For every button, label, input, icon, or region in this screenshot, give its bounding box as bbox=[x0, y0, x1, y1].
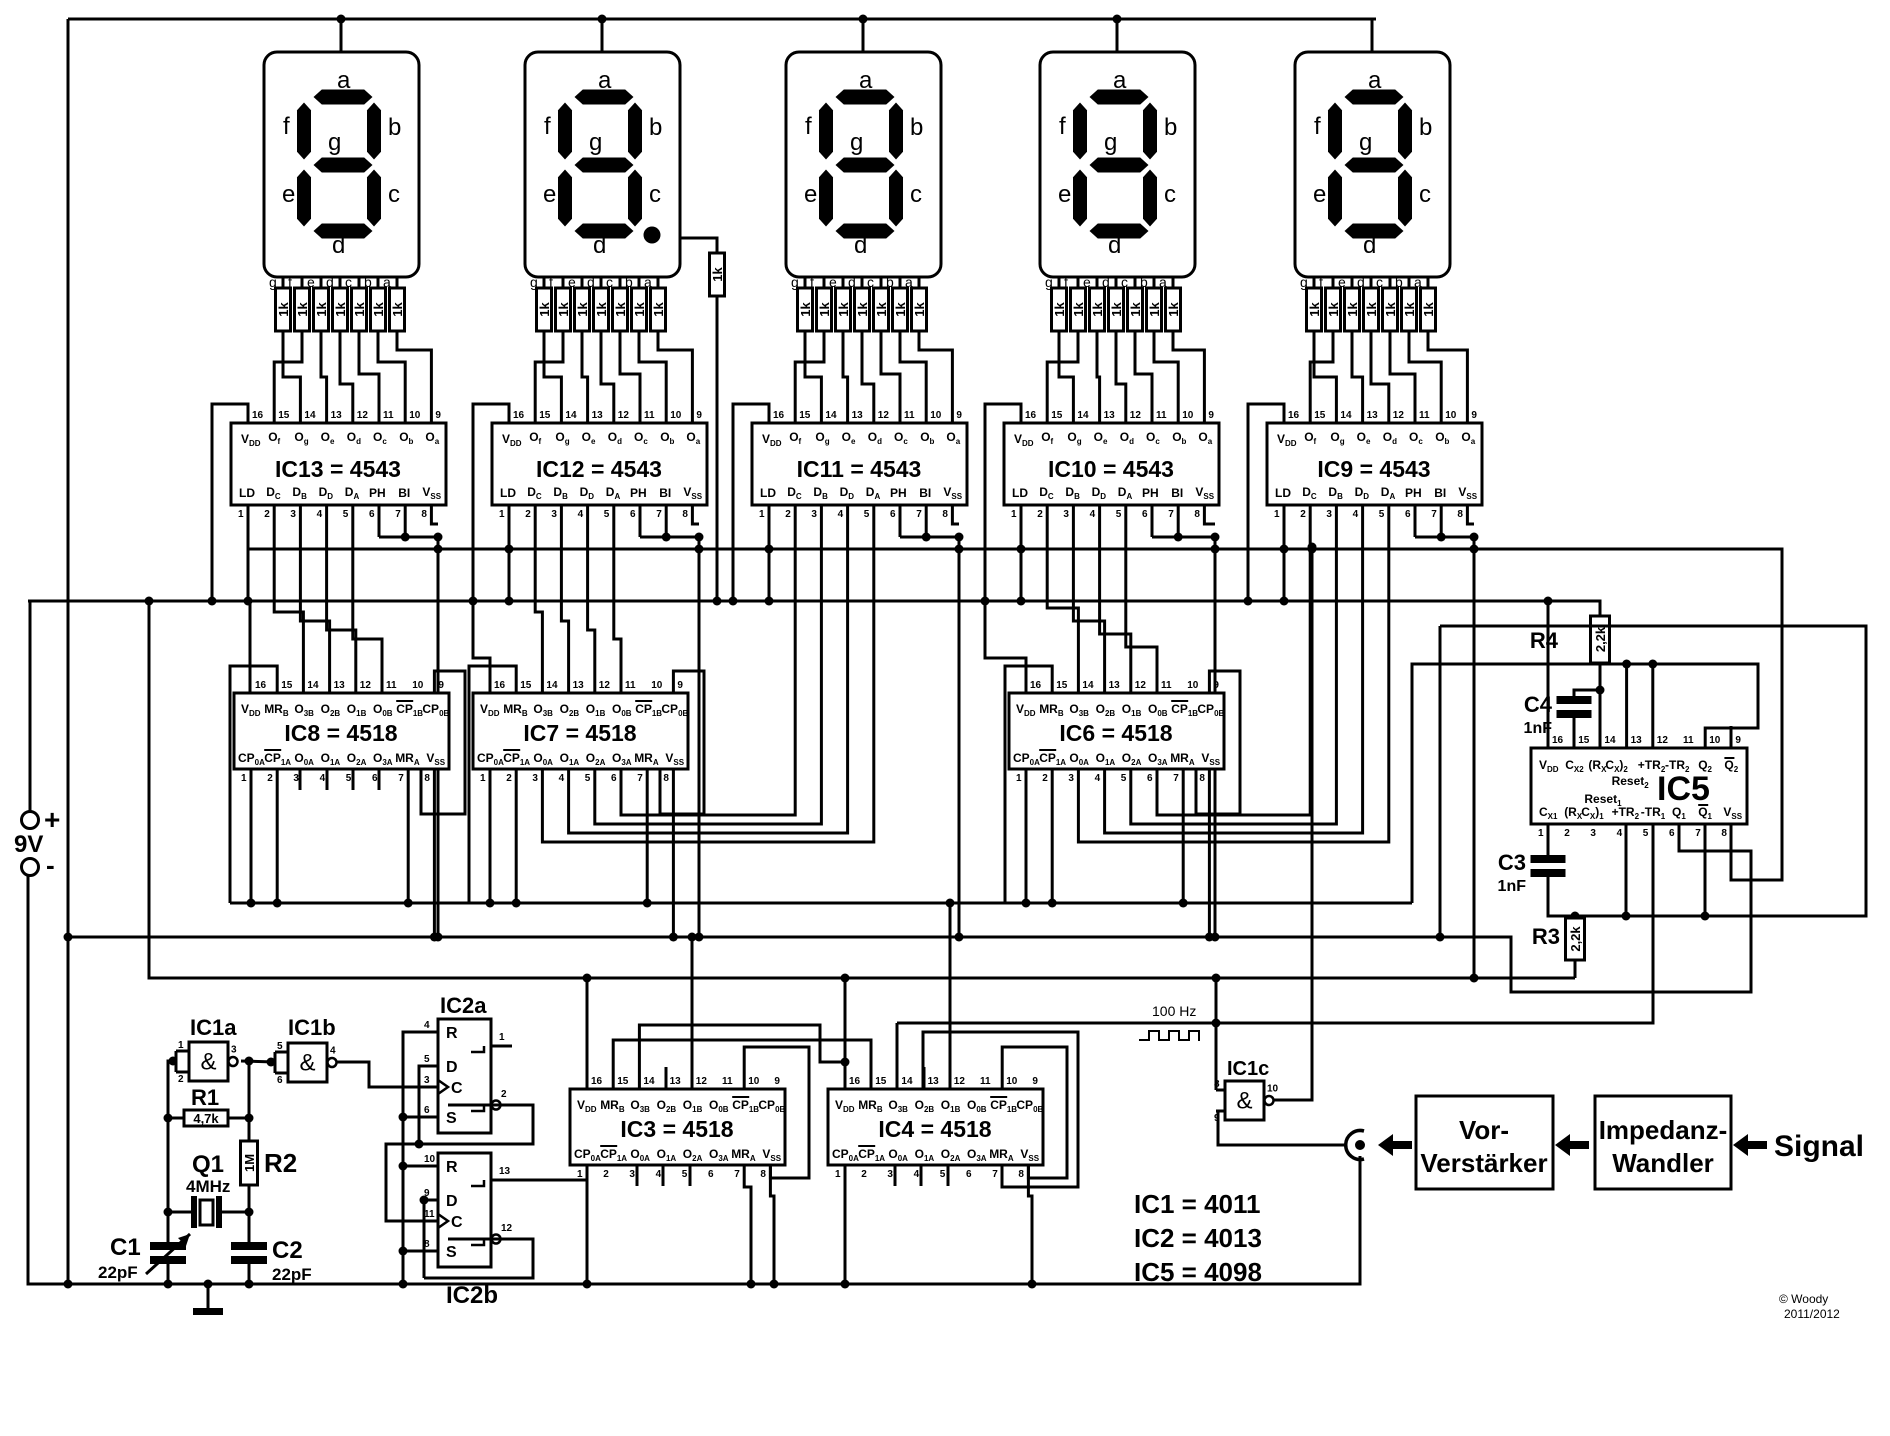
resistor 1k display 3 segment c bbox=[874, 288, 889, 331]
node display 3 bus junction bbox=[859, 15, 868, 24]
node pin12 junction bbox=[1648, 660, 1657, 669]
node IC6 MRA junction bbox=[1179, 899, 1188, 908]
decoder IC12 = 4543 bbox=[492, 423, 707, 505]
wire IC11 BI drop bbox=[925, 505, 928, 537]
counter IC8 = 4518 bbox=[234, 693, 449, 769]
svg-text:2: 2 bbox=[1564, 828, 1570, 839]
svg-text:5: 5 bbox=[940, 1169, 946, 1180]
svg-text:1: 1 bbox=[178, 1040, 184, 1051]
wire resistor f to IC11 bbox=[795, 331, 824, 423]
svg-text:15: 15 bbox=[278, 410, 290, 421]
wire IC8 stub bbox=[299, 769, 302, 790]
node 100Hz junction bbox=[1212, 1019, 1221, 1028]
node rail C IC1c junction bbox=[1212, 974, 1221, 983]
svg-text:e: e bbox=[282, 181, 295, 208]
svg-text:PH: PH bbox=[369, 486, 386, 500]
svg-text:1k: 1k bbox=[295, 302, 310, 317]
svg-text:1k: 1k bbox=[613, 302, 628, 317]
wire IC3 CP0A ground bbox=[586, 1165, 589, 1284]
wire R3 bottom to rail C bbox=[1574, 960, 1577, 978]
wire IC10 LD to bus bbox=[1020, 505, 1023, 601]
svg-text:c: c bbox=[1419, 181, 1431, 208]
wire resistor e to IC11 bbox=[843, 331, 848, 423]
wire resistor c to IC12 bbox=[620, 331, 640, 423]
resistor 1k display 4 segment c bbox=[1128, 288, 1143, 331]
node crystal right junction bbox=[245, 1208, 254, 1217]
wire display 3 pin d bbox=[861, 277, 864, 288]
svg-text:6: 6 bbox=[369, 509, 375, 520]
wire resistor f to IC10 bbox=[1047, 331, 1078, 423]
wire IC4 bottom stub bbox=[920, 1165, 923, 1186]
wire IC3 VDD riser bbox=[586, 978, 589, 1089]
svg-text:3: 3 bbox=[629, 1169, 635, 1180]
svg-text:22pF: 22pF bbox=[272, 1265, 312, 1284]
svg-text:10: 10 bbox=[1187, 680, 1199, 691]
svg-text:15: 15 bbox=[1314, 410, 1326, 421]
wire IC8 stub bbox=[326, 769, 329, 790]
svg-text:BI: BI bbox=[1434, 486, 1446, 500]
wire resistor e to IC13 bbox=[321, 331, 327, 423]
svg-text:Vor-: Vor- bbox=[1459, 1115, 1509, 1145]
svg-text:1k: 1k bbox=[912, 302, 927, 317]
node IC7 CP0A junction bbox=[486, 899, 495, 908]
wire IC11 LD to bus bbox=[768, 505, 771, 601]
svg-text:8: 8 bbox=[1721, 828, 1727, 839]
wire resistor d to IC11 bbox=[862, 331, 874, 423]
svg-text:c: c bbox=[1164, 181, 1176, 208]
wire display 1 pin e bbox=[320, 277, 323, 288]
svg-text:11: 11 bbox=[1156, 410, 1167, 421]
svg-text:12: 12 bbox=[360, 680, 372, 691]
wire IC3 bottom stub bbox=[662, 1165, 665, 1186]
svg-text:5: 5 bbox=[1643, 828, 1649, 839]
svg-text:12: 12 bbox=[878, 410, 890, 421]
svg-text:13: 13 bbox=[928, 1076, 940, 1087]
node IC11 rail549 junction bbox=[955, 545, 964, 554]
wire IC8 stub bbox=[378, 769, 381, 790]
wire 100Hz line to IC5 -TR1 bbox=[897, 824, 1653, 1023]
svg-text:3: 3 bbox=[424, 1075, 430, 1086]
wire resistor a to IC13 bbox=[397, 331, 431, 423]
wire IC12 VSS drop bbox=[692, 505, 699, 524]
resistor 1k display 1 segment a bbox=[390, 288, 405, 331]
svg-text:13: 13 bbox=[334, 680, 346, 691]
node crystal left junction bbox=[164, 1208, 173, 1217]
svg-text:5: 5 bbox=[682, 1169, 688, 1180]
wire IC11 D2 to IC7 A outputs bbox=[569, 505, 848, 833]
svg-text:-: - bbox=[46, 850, 55, 880]
svg-text:4: 4 bbox=[330, 1046, 336, 1057]
wire IC8 VDD riser bbox=[249, 601, 252, 693]
svg-text:4: 4 bbox=[1617, 828, 1623, 839]
svg-text:8: 8 bbox=[424, 773, 430, 784]
svg-text:5: 5 bbox=[346, 773, 352, 784]
node IC12 tie junction bbox=[662, 533, 671, 542]
resistor 1k display 1 segment f bbox=[295, 288, 310, 331]
svg-text:7: 7 bbox=[656, 509, 662, 520]
wire IC12 LD to bus bbox=[508, 505, 511, 601]
wire IC5 VDD riser bbox=[1547, 601, 1550, 748]
svg-text:1k: 1k bbox=[1166, 302, 1181, 317]
svg-text:12: 12 bbox=[696, 1076, 708, 1087]
svg-text:6: 6 bbox=[966, 1169, 972, 1180]
wire display 3 pin c bbox=[880, 277, 883, 288]
wire display 3 anode stub bbox=[862, 19, 865, 52]
wire IC8 CP0B loop bbox=[421, 671, 465, 814]
svg-text:7: 7 bbox=[637, 773, 643, 784]
svg-text:f: f bbox=[1319, 274, 1323, 290]
svg-text:1: 1 bbox=[1538, 828, 1544, 839]
wire IC13 PH BI tie bbox=[379, 536, 438, 539]
svg-text:8: 8 bbox=[760, 1169, 766, 1180]
wire IC4 bottom stub bbox=[947, 1165, 950, 1186]
wire IC9 D3 to IC6 A outputs bbox=[1078, 505, 1388, 842]
svg-text:C: C bbox=[451, 1080, 463, 1097]
svg-text:9: 9 bbox=[696, 410, 702, 421]
wire IC2b S bbox=[403, 1250, 438, 1253]
node IC6 CP0A junction bbox=[1022, 899, 1031, 908]
svg-text:IC2 = 4013: IC2 = 4013 bbox=[1134, 1223, 1262, 1253]
ground symbol bbox=[207, 1284, 210, 1308]
resistor 1k display 5 segment f bbox=[1326, 288, 1341, 331]
counter IC3 = 4518 bbox=[570, 1089, 785, 1165]
block Vor-Verstaerker bbox=[1416, 1096, 1553, 1189]
wire IC6 VSS drop bbox=[1208, 769, 1211, 937]
wire IC11 VDD riser bbox=[733, 404, 769, 601]
wire resistor b to IC10 bbox=[1154, 331, 1178, 423]
svg-text:1M: 1M bbox=[242, 1154, 257, 1172]
wire rail C (VDD lower) bbox=[149, 601, 1575, 978]
svg-text:11: 11 bbox=[1683, 735, 1694, 746]
svg-text:16: 16 bbox=[849, 1076, 861, 1087]
resistor 1k display 1 segment e bbox=[314, 288, 329, 331]
svg-text:8: 8 bbox=[1214, 1079, 1220, 1090]
svg-text:g: g bbox=[1104, 129, 1117, 156]
svg-text:a: a bbox=[337, 67, 351, 94]
svg-text:7: 7 bbox=[1173, 773, 1179, 784]
wire IC8 CP1A drop bbox=[276, 769, 279, 903]
svg-text:Impedanz-: Impedanz- bbox=[1599, 1115, 1728, 1145]
svg-text:3: 3 bbox=[532, 773, 538, 784]
wire IC9 D1 to IC6 A outputs bbox=[1131, 505, 1337, 824]
node IC8 CP1A junction bbox=[273, 899, 282, 908]
wire IC9 VSS drop bbox=[1467, 505, 1474, 524]
wire resistor b to IC13 bbox=[378, 331, 405, 423]
wire IC4 bottom stub bbox=[894, 1165, 897, 1186]
svg-text:4: 4 bbox=[838, 509, 844, 520]
svg-text:D: D bbox=[446, 1059, 458, 1076]
svg-text:10: 10 bbox=[1445, 410, 1457, 421]
resistor 1k display 2 segment g bbox=[537, 288, 552, 331]
svg-text:1k: 1k bbox=[1307, 302, 1322, 317]
decoder IC10 = 4543 bbox=[1004, 423, 1219, 505]
svg-text:d: d bbox=[593, 232, 606, 259]
svg-text:IC1b: IC1b bbox=[288, 1015, 336, 1040]
wire C3 bottom to reset node bbox=[1548, 877, 1626, 916]
svg-text:6: 6 bbox=[630, 509, 636, 520]
svg-text:8: 8 bbox=[1457, 509, 1463, 520]
svg-text:11: 11 bbox=[424, 1209, 435, 1220]
arrow preamp to jack bbox=[1378, 1134, 1412, 1156]
counter IC6 = 4518 bbox=[1009, 693, 1224, 769]
svg-text:13: 13 bbox=[499, 1166, 511, 1177]
wire C1 arrow bbox=[146, 1234, 190, 1274]
wire display 2 pin b bbox=[638, 277, 641, 288]
svg-text:16: 16 bbox=[1030, 680, 1042, 691]
svg-text:3: 3 bbox=[551, 509, 557, 520]
wire IC13 D0 to IC8 bbox=[274, 505, 303, 693]
svg-text:BI: BI bbox=[919, 486, 931, 500]
svg-text:IC6 = 4518: IC6 = 4518 bbox=[1059, 720, 1172, 746]
svg-text:IC8 = 4518: IC8 = 4518 bbox=[284, 720, 397, 746]
svg-text:6: 6 bbox=[890, 509, 896, 520]
svg-text:BI: BI bbox=[659, 486, 671, 500]
svg-text:5: 5 bbox=[277, 1041, 283, 1052]
node IC11 VDD junction bbox=[729, 597, 738, 606]
node rail549 junction bbox=[765, 545, 774, 554]
svg-text:14: 14 bbox=[304, 410, 316, 421]
svg-text:d: d bbox=[854, 232, 867, 259]
monostable IC5 = 4098 bbox=[1531, 748, 1747, 824]
node IC2 rail ground junction bbox=[399, 1280, 408, 1289]
wire IC10 D0 to IC6 bbox=[1047, 505, 1078, 693]
svg-text:13: 13 bbox=[1367, 410, 1379, 421]
svg-text:Verstärker: Verstärker bbox=[1420, 1148, 1547, 1178]
node IC3 VDD junction bbox=[583, 974, 592, 983]
node R4 C4 junction bbox=[1596, 686, 1605, 695]
wire IC9 VSS to rail B bbox=[1473, 537, 1476, 978]
svg-text:a: a bbox=[1368, 67, 1382, 94]
svg-text:9: 9 bbox=[1208, 410, 1214, 421]
svg-text:7: 7 bbox=[734, 1169, 740, 1180]
wire IC6 MRA drop bbox=[1182, 769, 1185, 903]
wire display 1 pin g bbox=[282, 277, 285, 288]
svg-text:b: b bbox=[1164, 114, 1177, 141]
svg-text:9: 9 bbox=[956, 410, 962, 421]
wire IC2b Qbar feedback bbox=[424, 1239, 533, 1278]
svg-text:9: 9 bbox=[435, 410, 441, 421]
node IC10 tie end junction bbox=[1211, 533, 1220, 542]
node IC1a output junction bbox=[245, 1057, 254, 1066]
resistor 1k display 1 segment g bbox=[276, 288, 291, 331]
svg-text:4: 4 bbox=[317, 509, 323, 520]
svg-text:4: 4 bbox=[578, 509, 584, 520]
svg-text:9: 9 bbox=[1213, 680, 1219, 691]
svg-text:© Woody: © Woody bbox=[1779, 1292, 1828, 1306]
svg-text:14: 14 bbox=[1340, 410, 1352, 421]
svg-text:b: b bbox=[1419, 114, 1432, 141]
svg-text:1k: 1k bbox=[352, 302, 367, 317]
resistor 1k display 4 segment b bbox=[1147, 288, 1162, 331]
node IC6 CP1A junction bbox=[1048, 899, 1057, 908]
wire IC12 D3 to IC7 bbox=[614, 505, 621, 693]
svg-text:13: 13 bbox=[670, 1076, 682, 1087]
wire DP resistor to VDD bus bbox=[716, 296, 719, 601]
node IC11 VSS rail junction bbox=[955, 933, 964, 942]
node C2 ground junction bbox=[245, 1280, 254, 1289]
wire IC3 top stub bbox=[665, 1067, 668, 1089]
wire display 1 anode stub bbox=[340, 19, 343, 52]
svg-text:&: & bbox=[299, 1050, 315, 1077]
svg-text:15: 15 bbox=[539, 410, 551, 421]
node VDD bus to IC5 VDD bbox=[1544, 597, 1553, 606]
node rail549 junction bbox=[1017, 545, 1026, 554]
svg-text:8: 8 bbox=[1199, 773, 1205, 784]
node IC9 tie junction bbox=[1437, 533, 1446, 542]
svg-text:15: 15 bbox=[1056, 680, 1068, 691]
wire IC11 D0 to IC7 A outputs bbox=[621, 505, 795, 815]
resistor 1k display 5 segment d bbox=[1364, 288, 1379, 331]
wire display 5 pin a bbox=[1427, 277, 1430, 288]
svg-text:IC2b: IC2b bbox=[446, 1282, 498, 1309]
flip-flop IC2a bbox=[438, 1019, 491, 1133]
svg-text:6: 6 bbox=[1142, 509, 1148, 520]
svg-text:7: 7 bbox=[1168, 509, 1174, 520]
wire IC2b R bbox=[403, 1165, 438, 1168]
svg-text:10: 10 bbox=[424, 1154, 436, 1165]
wire IC7 CP1A drop bbox=[515, 769, 518, 903]
wire left feedback drop bbox=[1439, 626, 1442, 937]
wire IC13 VDD riser bbox=[212, 404, 248, 601]
7-segment display LD5 bbox=[1295, 52, 1450, 277]
svg-text:12: 12 bbox=[1657, 735, 1669, 746]
svg-text:1: 1 bbox=[577, 1169, 583, 1180]
svg-text:11: 11 bbox=[386, 680, 397, 691]
7-segment display LD1 bbox=[264, 52, 419, 277]
wire IC9 VDD riser bbox=[1248, 404, 1284, 601]
svg-text:13: 13 bbox=[1109, 680, 1121, 691]
svg-text:IC5: IC5 bbox=[1657, 770, 1710, 808]
node R1 right junction bbox=[245, 1114, 254, 1123]
node pin4 reset junction bbox=[1622, 912, 1631, 921]
wire IC2b clock bbox=[386, 1144, 438, 1221]
svg-text:16: 16 bbox=[1288, 410, 1300, 421]
svg-text:1: 1 bbox=[1011, 509, 1017, 520]
svg-text:15: 15 bbox=[1051, 410, 1063, 421]
svg-text:14: 14 bbox=[565, 410, 577, 421]
wire IC3 CP loop bbox=[744, 1047, 809, 1178]
wire IC2a Q stub bbox=[491, 1045, 512, 1048]
wire resistor d to IC10 bbox=[1116, 331, 1126, 423]
wire display 2 pin c bbox=[619, 277, 622, 288]
node IC4 VDD junction bbox=[841, 974, 850, 983]
resistor 1k display 3 segment a bbox=[912, 288, 927, 331]
svg-text:g: g bbox=[328, 129, 341, 156]
wire IC7 VSS drop bbox=[672, 769, 675, 937]
wire IC13 BI drop bbox=[404, 505, 407, 537]
svg-text:C1: C1 bbox=[110, 1234, 141, 1261]
wire IC13 LD to bus bbox=[247, 505, 250, 601]
svg-text:1k: 1k bbox=[1364, 302, 1379, 317]
wire IC10 VDD riser bbox=[985, 404, 1021, 601]
svg-text:d: d bbox=[1363, 232, 1376, 259]
svg-text:LD: LD bbox=[760, 486, 776, 500]
node IC10 tie junction bbox=[1174, 533, 1183, 542]
resistor 1k display 4 segment f bbox=[1071, 288, 1086, 331]
svg-text:PH: PH bbox=[1405, 486, 1422, 500]
node IC9 VDD junction bbox=[1244, 597, 1253, 606]
svg-text:1k: 1k bbox=[632, 302, 647, 317]
svg-text:7: 7 bbox=[1695, 828, 1701, 839]
svg-text:d: d bbox=[332, 232, 345, 259]
node R3 top junction bbox=[1571, 912, 1580, 921]
svg-text:12: 12 bbox=[501, 1223, 513, 1234]
svg-text:10: 10 bbox=[651, 680, 663, 691]
node IC2b R junction bbox=[399, 1162, 408, 1171]
svg-text:6: 6 bbox=[424, 1105, 430, 1116]
wire IC3 bottom stub bbox=[636, 1165, 639, 1186]
svg-text:9: 9 bbox=[677, 680, 683, 691]
svg-text:3: 3 bbox=[811, 509, 817, 520]
svg-text:10: 10 bbox=[409, 410, 421, 421]
wire right osc rail bbox=[248, 1061, 251, 1141]
crystal Q1 4MHz bbox=[191, 1196, 197, 1228]
wire display 1 pin a bbox=[396, 277, 399, 288]
svg-text:4,7k: 4,7k bbox=[193, 1111, 219, 1126]
node IC12 VDD junction bbox=[469, 597, 478, 606]
resistor 1k display 2 segment d bbox=[594, 288, 609, 331]
svg-text:4: 4 bbox=[656, 1169, 662, 1180]
wire ground bus bbox=[28, 875, 1360, 1284]
wire rail B below counters bbox=[68, 824, 1751, 992]
wire IC3 VSS drop bbox=[770, 1165, 774, 1284]
svg-text:D: D bbox=[446, 1193, 458, 1210]
svg-text:IC9 = 4543: IC9 = 4543 bbox=[1317, 456, 1430, 482]
svg-text:2: 2 bbox=[267, 773, 273, 784]
resistor 1k display 1 segment b bbox=[371, 288, 386, 331]
wire IC3 to IC4 link bbox=[613, 1040, 871, 1089]
wire rail PH BI bbox=[248, 505, 1782, 880]
wire resistor e to IC10 bbox=[1097, 331, 1100, 423]
wire display 4 pin a bbox=[1172, 277, 1175, 288]
svg-text:Reset2: Reset2 bbox=[1612, 774, 1650, 790]
wire display 1 pin f bbox=[301, 277, 304, 288]
wire display 5 pin e bbox=[1351, 277, 1354, 288]
svg-text:C3: C3 bbox=[1498, 850, 1526, 875]
node IC10 rail549 junction bbox=[1211, 545, 1220, 554]
resistor R2 1M bbox=[241, 1141, 258, 1185]
wire IC12 VSS to rail B bbox=[698, 537, 701, 937]
svg-text:S: S bbox=[446, 1244, 457, 1261]
svg-text:16: 16 bbox=[773, 410, 785, 421]
wire IC6 CP0B loop bbox=[1196, 671, 1240, 814]
svg-text:16: 16 bbox=[494, 680, 506, 691]
svg-text:g: g bbox=[589, 129, 602, 156]
node C1 ground junction bbox=[164, 1280, 173, 1289]
svg-text:1k: 1k bbox=[1071, 302, 1086, 317]
svg-text:3: 3 bbox=[1068, 773, 1074, 784]
svg-text:f: f bbox=[283, 113, 290, 140]
svg-text:R: R bbox=[446, 1159, 458, 1176]
svg-text:11: 11 bbox=[644, 410, 655, 421]
svg-text:10: 10 bbox=[930, 410, 942, 421]
wire IC9 PH drop bbox=[1414, 505, 1417, 537]
svg-text:1: 1 bbox=[759, 509, 765, 520]
svg-text:1k: 1k bbox=[314, 302, 329, 317]
svg-text:e: e bbox=[1058, 181, 1071, 208]
svg-text:14: 14 bbox=[901, 1076, 913, 1087]
svg-text:2: 2 bbox=[506, 773, 512, 784]
svg-text:e: e bbox=[804, 181, 817, 208]
wire IC3 chain loop bbox=[639, 1025, 845, 1089]
svg-text:1k: 1k bbox=[371, 302, 386, 317]
svg-text:2: 2 bbox=[861, 1169, 867, 1180]
svg-text:1: 1 bbox=[499, 1032, 505, 1043]
wire display 4 anode stub bbox=[1116, 19, 1119, 52]
svg-text:9: 9 bbox=[774, 1076, 780, 1087]
svg-text:LD: LD bbox=[239, 486, 255, 500]
node IC12 LD junction bbox=[505, 597, 514, 606]
